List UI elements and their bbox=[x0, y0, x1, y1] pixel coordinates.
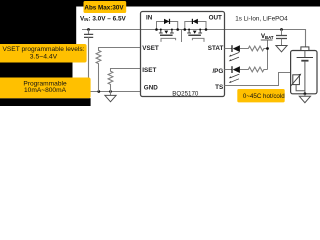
node pack negative bbox=[304, 92, 307, 95]
node IN cap junction bbox=[87, 28, 90, 31]
svg-text:OUT: OUT bbox=[209, 14, 222, 21]
LED PG bbox=[229, 66, 240, 83]
battery cell bbox=[297, 51, 313, 94]
op chip BQ25170 outline bbox=[141, 12, 225, 97]
svg-text:0~45C hot/cold: 0~45C hot/cold bbox=[243, 93, 285, 100]
node OUT cap junction bbox=[280, 28, 283, 31]
diode D1 bbox=[164, 19, 170, 24]
transistor Q2 bbox=[187, 30, 204, 42]
svg-text:IN: IN bbox=[146, 14, 153, 21]
svg-text:STAT: STAT bbox=[208, 45, 224, 52]
node Q2 right bbox=[205, 28, 208, 31]
transistor Q1 bbox=[159, 30, 176, 42]
ground symbol (COUT) bbox=[276, 46, 287, 52]
node Q2 stub right bbox=[199, 29, 201, 31]
node RVSET-GND bbox=[97, 90, 100, 93]
thermistor NTC bbox=[291, 74, 305, 91]
svg-text:TS: TS bbox=[215, 84, 223, 91]
node Q1 stub left bbox=[160, 29, 162, 31]
node Q1 stub right bbox=[171, 29, 173, 31]
wire mid sense bbox=[181, 30, 183, 43]
capacitor CIN bbox=[84, 30, 93, 92]
svg-text:VSET programmable levels:: VSET programmable levels: bbox=[3, 46, 85, 53]
svg-text:GND: GND bbox=[144, 85, 158, 92]
node Q1 right bbox=[176, 28, 179, 31]
wire GND rail bbox=[89, 91, 141, 93]
resistor R-STAT bbox=[240, 46, 268, 51]
svg-text:VBAT: VBAT bbox=[261, 34, 274, 40]
node Q2 stub left bbox=[188, 29, 190, 31]
wire VIN input rail bbox=[82, 29, 141, 31]
battery terminal nub bbox=[301, 47, 309, 51]
LED STAT bbox=[229, 45, 240, 61]
capacitor COUT bbox=[276, 30, 287, 46]
node Q2 left bbox=[184, 28, 187, 31]
ground symbol (input) bbox=[105, 92, 116, 102]
svg-text:3.5~4.4V: 3.5~4.4V bbox=[30, 54, 58, 61]
wire TS to pack thermistor bbox=[225, 73, 297, 86]
wire OUT to battery bbox=[225, 30, 306, 47]
resistor RVSET bbox=[96, 48, 140, 92]
svg-text:1s Li-Ion, LiFePO4: 1s Li-Ion, LiFePO4 bbox=[235, 16, 288, 23]
svg-text:ISET: ISET bbox=[142, 67, 156, 74]
label VBAT bbox=[261, 34, 274, 40]
svg-text:VSET: VSET bbox=[142, 45, 159, 52]
node Q1 left bbox=[155, 28, 158, 31]
svg-text:VIN: 3.0V – 6.5V: VIN: 3.0V – 6.5V bbox=[80, 15, 126, 22]
svg-text:10mA~800mA: 10mA~800mA bbox=[24, 87, 67, 94]
svg-text:BQ25170: BQ25170 bbox=[172, 90, 199, 97]
wire PG pin bbox=[225, 69, 233, 71]
wire internal IN-OUT rail bbox=[141, 29, 225, 31]
battery pack box bbox=[291, 51, 317, 94]
node RISET-GND bbox=[109, 90, 112, 93]
black mid-left bar bbox=[0, 63, 73, 78]
node VBAT-STAT bbox=[266, 47, 269, 50]
diode D2 bbox=[192, 19, 198, 24]
resistor R-PG bbox=[240, 67, 268, 72]
callout VSET levels bbox=[0, 44, 87, 63]
wire VBAT rail bbox=[267, 40, 269, 69]
callout Programmable current bbox=[0, 78, 91, 99]
black left region bbox=[0, 0, 76, 44]
svg-text:Abs Max:30V: Abs Max:30V bbox=[84, 4, 124, 11]
callout hot/cold bbox=[237, 89, 285, 102]
black top bar bbox=[0, 0, 320, 7]
resistor RISET bbox=[108, 69, 140, 92]
callout Abs Max bbox=[84, 1, 127, 13]
transistor Q2 body-diode loop bbox=[185, 22, 206, 30]
svg-text:/PG: /PG bbox=[212, 68, 223, 75]
black bottom bar bbox=[0, 98, 91, 106]
transistor Q1 body-diode loop bbox=[157, 22, 178, 30]
ground symbol (pack) bbox=[299, 94, 310, 103]
wire STAT pin bbox=[225, 48, 233, 50]
